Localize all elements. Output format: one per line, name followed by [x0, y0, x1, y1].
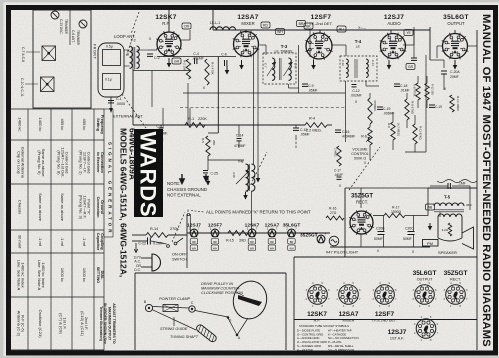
svg-text:C-13: C-13	[157, 125, 164, 129]
svg-text:C-16: C-16	[342, 130, 349, 134]
svg-text:#47 PILOT LIGHT: #47 PILOT LIGHT	[326, 250, 359, 255]
svg-text:AUDIO: AUDIO	[387, 21, 401, 26]
svg-text:35L6GT: 35L6GT	[443, 14, 469, 21]
svg-text:C20B: C20B	[376, 227, 385, 231]
svg-text:Line. See Note A: Line. See Note A	[17, 260, 22, 291]
svg-text:C-17: C-17	[334, 169, 341, 173]
svg-text:ADJUST TRIMMERS TO: ADJUST TRIMMERS TO	[112, 303, 116, 344]
svg-text:BK: BK	[306, 25, 311, 29]
svg-text:R-8: R-8	[387, 123, 391, 128]
svg-text:12SK7: 12SK7	[155, 14, 176, 21]
svg-text:R-16: R-16	[329, 207, 336, 211]
svg-text:R-12 33K: R-12 33K	[431, 84, 435, 95]
svg-text:TUNING SHAFT: TUNING SHAFT	[170, 335, 199, 339]
svg-text:C-9: C-9	[308, 84, 314, 88]
svg-text:C-19: C-19	[435, 105, 442, 109]
svg-text:Antenna (C-2): Antenna (C-2)	[17, 311, 22, 337]
svg-text:R-10 470K: R-10 470K	[413, 84, 417, 97]
svg-text:Same as above: Same as above	[38, 193, 43, 222]
svg-text:MODELS 64WG-1511A, 64WG-1512A,: MODELS 64WG-1511A, 64WG-1512A,	[119, 128, 129, 277]
svg-text:R-6: R-6	[361, 135, 367, 139]
svg-text:12SJ7: 12SJ7	[187, 223, 201, 229]
svg-text:GR: GR	[174, 60, 180, 64]
svg-text:SWITCH: SWITCH	[172, 258, 187, 262]
svg-text:Trimmer Illustration): Trimmer Illustration)	[99, 306, 103, 342]
svg-text:270K: 270K	[170, 227, 179, 231]
svg-text:500K Ω: 500K Ω	[354, 157, 366, 161]
svg-text:.0005: .0005	[116, 102, 125, 106]
svg-text:RD: RD	[263, 24, 268, 28]
svg-text:R-11 82KΩ: R-11 82KΩ	[419, 126, 423, 140]
svg-text:35L6GT: 35L6GT	[413, 270, 437, 277]
svg-text:1600 kc: 1600 kc	[82, 268, 87, 282]
svg-text:(Prong No. 3): (Prong No. 3)	[79, 195, 84, 220]
svg-text:C20C: C20C	[405, 227, 414, 231]
svg-text:OUTPUT: OUTPUT	[447, 21, 465, 26]
svg-text:AB: AB	[428, 206, 433, 210]
svg-text:OUTPUT: OUTPUT	[417, 278, 433, 282]
svg-text:.1 mf: .1 mf	[82, 237, 87, 247]
svg-text:WH: WH	[250, 246, 254, 250]
svg-text:R.F.: R.F.	[314, 319, 321, 323]
svg-text:STRING GUIDE: STRING GUIDE	[160, 327, 188, 331]
svg-text:R-1: R-1	[188, 117, 194, 121]
svg-text:39Ω: 39Ω	[239, 239, 246, 243]
svg-text:OR: OR	[184, 25, 190, 29]
svg-text:20MF: 20MF	[450, 75, 459, 79]
svg-text:12SK7: 12SK7	[307, 311, 327, 318]
svg-text:2 MEG: 2 MEG	[334, 148, 338, 157]
svg-text:I.F. TRANS.: I.F. TRANS.	[275, 50, 294, 54]
svg-text:T-2: T-2	[130, 39, 136, 43]
svg-text:.1 mf: .1 mf	[38, 237, 43, 247]
svg-text:Line. See Note A: Line. See Note A	[37, 260, 42, 291]
svg-text:12SA7: 12SA7	[237, 14, 258, 21]
svg-text:R.F.: R.F.	[162, 21, 169, 26]
svg-text:28K: 28K	[212, 140, 216, 145]
svg-text:220K: 220K	[198, 117, 207, 121]
svg-text:MIXER: MIXER	[241, 21, 254, 26]
svg-text:I.F.: I.F.	[356, 45, 361, 49]
svg-text:NOTE:: NOTE:	[167, 181, 180, 186]
svg-text:H—HEATER: H—HEATER	[297, 348, 313, 352]
svg-text:to Receiver: to Receiver	[96, 152, 100, 173]
svg-text:50MF: 50MF	[403, 237, 412, 241]
svg-text:12SA7: 12SA7	[339, 311, 359, 318]
svg-text:1400 kc: 1400 kc	[18, 117, 23, 131]
svg-text:X: X	[187, 209, 190, 213]
svg-text:TRIMMER: TRIMMER	[64, 19, 68, 35]
svg-text:36Ω: 36Ω	[466, 203, 472, 207]
svg-text:.002MF: .002MF	[350, 94, 362, 98]
svg-text:FRONT: FRONT	[93, 44, 97, 60]
svg-text:BR: BR	[299, 22, 304, 26]
svg-text:Chassis: Chassis	[18, 200, 23, 214]
svg-text:POINTER CLAMP: POINTER CLAMP	[159, 297, 190, 301]
svg-text:12SF7: 12SF7	[311, 14, 332, 21]
svg-text:RECT.: RECT.	[356, 200, 368, 205]
svg-text:12SF7: 12SF7	[375, 311, 395, 318]
svg-text:WH: WH	[192, 246, 196, 250]
svg-text:WH: WH	[277, 30, 283, 34]
svg-text:470MMF: 470MMF	[342, 135, 355, 139]
svg-text:47MMF: 47MMF	[234, 144, 246, 148]
svg-text:Oscillator (C23): Oscillator (C23)	[38, 309, 43, 338]
svg-text:12SJ7: 12SJ7	[384, 14, 404, 21]
svg-text:R-4: R-4	[309, 117, 315, 121]
svg-text:C-12: C-12	[352, 89, 359, 93]
svg-text:C-2: C-2	[154, 56, 160, 60]
svg-text:C-1: C-1	[116, 97, 122, 101]
svg-text:35L6GT: 35L6GT	[283, 223, 301, 229]
svg-text:15-L-1: 15-L-1	[210, 21, 220, 25]
svg-text:64WG-1809A: 64WG-1809A	[128, 128, 138, 180]
svg-text:WH: WH	[270, 246, 274, 250]
svg-text:CHASSIS GROUND: CHASSIS GROUND	[167, 187, 207, 192]
svg-text:.001MF: .001MF	[192, 57, 204, 61]
svg-text:R-13 180Ω: R-13 180Ω	[456, 96, 460, 111]
svg-text:.05MF: .05MF	[300, 133, 310, 137]
svg-text:C-23 OSC.: C-23 OSC.	[59, 19, 63, 35]
svg-text:CLOCKWISE POSITION: CLOCKWISE POSITION	[201, 291, 243, 295]
svg-text:27Ω: 27Ω	[330, 211, 337, 215]
svg-text:C-7 & C-8: C-7 & C-8	[21, 47, 25, 62]
svg-text:BR: BR	[250, 240, 254, 244]
svg-text:IN ORDER SHOWN (See: IN ORDER SHOWN (See	[103, 303, 107, 344]
svg-text:R-5: R-5	[201, 138, 205, 143]
svg-text:.01MF: .01MF	[400, 89, 410, 93]
svg-text:T-4: T-4	[355, 39, 362, 44]
svg-text:Capacitor: Capacitor	[96, 233, 100, 251]
svg-text:C-19: C-19	[383, 107, 390, 111]
svg-text:NOT EXTERNAL: NOT EXTERNAL	[167, 193, 201, 198]
svg-text:R-15: R-15	[226, 239, 234, 243]
svg-text:STANDARD TUBE SOCKET SYMBOLS: STANDARD TUBE SOCKET SYMBOLS	[299, 324, 349, 328]
svg-text:(Prong No. 2): (Prong No. 2)	[79, 150, 84, 175]
svg-text:C: C	[191, 301, 194, 305]
svg-text:SPEAKER: SPEAKER	[438, 250, 457, 255]
svg-text:YE: YE	[406, 31, 411, 35]
svg-text:47000Ω: 47000Ω	[373, 100, 377, 111]
svg-text:R-3 470K: R-3 470K	[211, 62, 215, 75]
svg-text:SETTING: SETTING	[96, 267, 100, 284]
svg-text:BR: BR	[213, 240, 217, 244]
svg-text:C-6 ANT.: C-6 ANT.	[71, 30, 75, 43]
svg-text:35Z5GT: 35Z5GT	[300, 233, 318, 239]
svg-text:RECT.: RECT.	[450, 278, 461, 282]
svg-text:SIGNAL GENERATOR: SIGNAL GENERATOR	[108, 142, 113, 235]
svg-text:C-10: C-10	[341, 60, 345, 67]
svg-text:3-28: 3-28	[232, 172, 236, 178]
svg-text:1ST A.F.: 1ST A.F.	[390, 337, 404, 341]
svg-text:30 mmf: 30 mmf	[18, 235, 23, 249]
svg-text:C-11: C-11	[371, 60, 375, 66]
svg-text:3-28: 3-28	[126, 50, 130, 56]
svg-text:0.1μ: 0.1μ	[105, 78, 112, 82]
svg-text:MAXIMUM OUTPUT: MAXIMUM OUTPUT	[108, 307, 112, 341]
svg-text:BR: BR	[192, 240, 196, 244]
svg-text:C-22: C-22	[138, 242, 146, 246]
svg-text:R-14: R-14	[150, 227, 158, 231]
svg-text:T-6: T-6	[238, 159, 245, 164]
svg-text:ON-OFF: ON-OFF	[172, 253, 187, 257]
svg-text:455 kc: 455 kc	[60, 119, 65, 131]
svg-text:I.F.& 2ND DET.: I.F.& 2ND DET.	[372, 319, 396, 323]
svg-text:C-14: C-14	[236, 134, 243, 138]
svg-text:C-4: C-4	[193, 52, 199, 56]
svg-text:PM: PM	[427, 241, 433, 246]
svg-text:C-18: C-18	[400, 84, 407, 88]
svg-text:TRIMMER: TRIMMER	[76, 30, 80, 46]
svg-text:EXTERNAL ANT.: EXTERNAL ANT.	[113, 114, 144, 119]
svg-text:D: D	[229, 319, 232, 323]
svg-text:BU: BU	[339, 28, 344, 32]
svg-text:MAXIMUM COUNTER-: MAXIMUM COUNTER-	[201, 287, 241, 291]
svg-text:T-3: T-3	[281, 44, 288, 49]
svg-text:.05MF: .05MF	[308, 89, 318, 93]
svg-text:VOLUME: VOLUME	[352, 148, 368, 152]
svg-text:WARDS: WARDS	[136, 132, 161, 218]
svg-text:C-10 & C-11: C-10 & C-11	[20, 78, 24, 97]
svg-text:3.2Ω: 3.2Ω	[442, 228, 449, 232]
svg-text:SU—SUPPRESSOR: SU—SUPPRESSOR	[328, 348, 354, 352]
svg-text:BR: BR	[270, 240, 274, 244]
svg-text:12SF7: 12SF7	[208, 223, 222, 229]
svg-text:Setting: Setting	[96, 118, 100, 132]
svg-text:R-2 15K: R-2 15K	[183, 60, 187, 71]
svg-text:(C10) & (C11): (C10) & (C11)	[80, 311, 85, 337]
svg-text:D.C.: D.C.	[134, 268, 141, 272]
svg-text:GR: GR	[408, 65, 414, 69]
svg-text:.1 mf: .1 mf	[60, 237, 65, 247]
svg-text:(Prong No. 8): (Prong No. 8)	[37, 150, 42, 175]
svg-text:455 kc: 455 kc	[82, 119, 87, 131]
svg-text:MANUAL OF 1947 MOST-OFTEN-NEED: MANUAL OF 1947 MOST-OFTEN-NEEDED RADIO D…	[480, 14, 492, 347]
svg-text:12SJ7: 12SJ7	[388, 329, 407, 336]
svg-text:X○—: X○—	[358, 26, 366, 30]
svg-text:1600 kc: 1600 kc	[60, 268, 65, 282]
svg-text:C-15: C-15	[300, 128, 307, 132]
svg-text:R-9 870Ω: R-9 870Ω	[411, 101, 415, 115]
svg-text:0.2MF.: 0.2MF.	[153, 242, 164, 246]
svg-text:R-17: R-17	[392, 206, 399, 210]
svg-text:C-6: C-6	[221, 53, 227, 57]
svg-text:T-5: T-5	[444, 195, 451, 200]
svg-text:12SK7: 12SK7	[245, 223, 260, 229]
svg-text:(Prong No. 8): (Prong No. 8)	[57, 150, 62, 175]
svg-text:Clip on Loop: Clip on Loop	[17, 151, 22, 174]
svg-text:(4.7 MEG): (4.7 MEG)	[397, 123, 401, 136]
svg-text:35Z5GT: 35Z5GT	[444, 270, 468, 277]
svg-text:DRIVE PULLEY IN: DRIVE PULLEY IN	[201, 282, 233, 286]
svg-text:50MF: 50MF	[374, 237, 383, 241]
svg-text:WH: WH	[213, 246, 217, 250]
svg-text:1400 kc: 1400 kc	[38, 117, 43, 131]
svg-text:Same as above: Same as above	[60, 193, 65, 222]
svg-text:C-25: C-25	[211, 172, 218, 176]
svg-text:.04MF: .04MF	[334, 173, 343, 177]
svg-text:WH: WH	[289, 246, 293, 250]
svg-text:1500Ω: 1500Ω	[391, 210, 402, 214]
svg-text:CONTROL: CONTROL	[351, 152, 369, 156]
svg-text:MIXER: MIXER	[342, 319, 354, 323]
svg-text:0.5μ: 0.5μ	[106, 45, 113, 49]
svg-text:ALL POINTS MARKED “X” RETURN T: ALL POINTS MARKED “X” RETURN TO THIS POI…	[206, 210, 311, 215]
svg-text:C-20A: C-20A	[450, 70, 460, 74]
svg-text:(C7) & (C8): (C7) & (C8)	[59, 313, 64, 334]
svg-text:C-7: C-7	[264, 63, 268, 68]
svg-text:BR: BR	[290, 240, 294, 244]
svg-text:12SA7: 12SA7	[265, 223, 280, 229]
svg-text:Connection: Connection	[96, 197, 100, 219]
svg-text:C-8: C-8	[294, 63, 298, 68]
